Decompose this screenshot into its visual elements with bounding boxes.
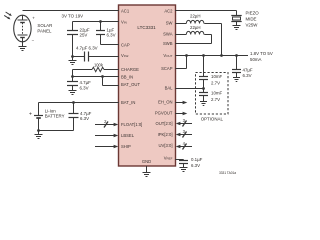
- node SCAP junction: [185, 54, 188, 57]
- svg-text:3331 TA01a: 3331 TA01a: [219, 171, 236, 175]
- svg-text:0.1µF: 0.1µF: [191, 157, 203, 162]
- svg-text:6.3V: 6.3V: [107, 33, 116, 38]
- svg-text:6.3V: 6.3V: [243, 73, 252, 78]
- svg-text:4.7µF 6.3V: 4.7µF 6.3V: [76, 45, 98, 50]
- sun arrow 1: [6, 12, 12, 16]
- ground C9: [180, 168, 188, 172]
- ground battery: [35, 131, 43, 139]
- svg-text:2.7V: 2.7V: [211, 97, 220, 102]
- wire AC2: [175, 11, 237, 16]
- wire battery negative: [39, 130, 74, 132]
- ground C4: [69, 91, 77, 95]
- wire IPK[2:0] input arrow: [176, 129, 192, 137]
- wire EH_ON output arrow: [175, 101, 187, 104]
- resistor R1 100k: [73, 67, 120, 71]
- node BAT_IN junction: [72, 101, 75, 104]
- IC U1 LTC3331: [119, 5, 176, 166]
- capacitor C6 47uF 6.3V: [232, 56, 241, 78]
- svg-text:PIEZO: PIEZO: [246, 11, 260, 16]
- label Li-Ion BATTERY: [45, 108, 65, 118]
- ground C6: [233, 78, 240, 82]
- svg-text:OUT[2:0]: OUT[2:0]: [156, 121, 173, 126]
- value 10mF 2.7V: [211, 90, 223, 102]
- wire CAP: [101, 44, 120, 46]
- svg-text:−: −: [32, 38, 35, 43]
- value 22uF 25V: [80, 27, 90, 37]
- svg-text:EH_ON: EH_ON: [158, 99, 172, 104]
- value 47uF 6.3V: [243, 68, 253, 79]
- svg-text:10mF: 10mF: [211, 90, 223, 95]
- ground solar: [19, 42, 27, 51]
- svg-text:+: +: [32, 15, 35, 20]
- wire SHIP input arrow: [95, 145, 118, 148]
- capacitor C5 4.7uF 6.3V: [69, 103, 79, 131]
- ground piezo: [233, 26, 241, 30]
- svg-text:SCAP: SCAP: [161, 66, 173, 71]
- node L1 junction: [220, 54, 223, 57]
- svg-text:3V TO 19V: 3V TO 19V: [62, 13, 84, 18]
- wire VOUT: [175, 55, 248, 57]
- node VIN2 ground junction: [71, 55, 74, 58]
- wire VIN: [73, 21, 120, 23]
- svg-text:CAP: CAP: [121, 42, 130, 47]
- wire BAT_OUT: [103, 77, 120, 86]
- node BB_IN junction: [71, 75, 74, 78]
- svg-text:IPK[2:0]: IPK[2:0]: [158, 132, 173, 137]
- wire VIN2: [73, 56, 85, 58]
- svg-text:VREF: VREF: [164, 155, 173, 160]
- svg-text:22µH: 22µH: [190, 25, 201, 30]
- svg-text:LTC3331: LTC3331: [137, 25, 156, 30]
- svg-text:100k: 100k: [94, 63, 104, 68]
- svg-text:VIN2: VIN2: [121, 53, 129, 58]
- ground VIN2: [69, 57, 77, 65]
- svg-text:1.8V TO 5V: 1.8V TO 5V: [250, 51, 273, 56]
- svg-text:PANEL: PANEL: [37, 28, 52, 33]
- svg-text:6.3V: 6.3V: [80, 116, 89, 121]
- svg-text:MIDE: MIDE: [246, 17, 257, 22]
- svg-text:22µF: 22µF: [80, 27, 90, 32]
- battery BT1 Li-Ion: [34, 103, 43, 131]
- svg-text:GND: GND: [142, 159, 151, 164]
- wire AC1: [23, 10, 120, 12]
- capacitor C8 10mF 2.7V: [199, 89, 208, 102]
- svg-text:AC1: AC1: [121, 9, 130, 14]
- wire SWB: [175, 43, 212, 45]
- capacitor C4 4.7uF 6.3V: [67, 82, 78, 91]
- capacitor C2 1uF 6.3V: [96, 22, 105, 45]
- svg-text:22µH: 22µH: [190, 13, 201, 18]
- ground supercap: [200, 102, 207, 106]
- wire VREF: [175, 159, 184, 161]
- inductor L2 22uH: [175, 31, 212, 43]
- label SOLAR PANEL: [37, 23, 52, 33]
- optional box: [196, 73, 229, 115]
- wire LBSEL input arrow: [95, 134, 118, 137]
- wire OUT[2:0] input arrow: [176, 118, 192, 126]
- wire FLOAT[1:0] input arrow: [95, 119, 118, 127]
- svg-text:+: +: [29, 112, 32, 118]
- node battery ground junction: [37, 129, 40, 132]
- svg-text:VOUT: VOUT: [163, 53, 172, 58]
- svg-text:6.3V: 6.3V: [191, 163, 200, 168]
- label PIEZO MIDE V25W: [246, 11, 260, 28]
- wire BB_IN: [73, 76, 120, 78]
- node C6 junction: [235, 54, 238, 57]
- svg-text:10mF: 10mF: [211, 74, 223, 79]
- svg-text:SW: SW: [166, 21, 173, 26]
- piezo X1 MIDE V25W: [231, 16, 241, 26]
- wire BAT_IN: [39, 102, 120, 104]
- svg-text:BB_IN: BB_IN: [121, 75, 133, 80]
- svg-text:BAL: BAL: [165, 85, 174, 90]
- value 1uF 6.3V: [107, 27, 116, 37]
- wire UV[3:0] input arrow: [176, 141, 192, 149]
- ground GND pin: [143, 166, 151, 177]
- svg-text:4.7µF: 4.7µF: [80, 111, 92, 116]
- solar panel PV1: [14, 15, 31, 42]
- svg-text:50mA: 50mA: [250, 57, 262, 62]
- wire BAL: [175, 88, 204, 90]
- svg-text:4.7µF: 4.7µF: [80, 80, 92, 85]
- value 0.1uF 6.3V: [191, 157, 203, 168]
- svg-text:PGVOUT: PGVOUT: [155, 110, 173, 115]
- capacitor C3 4.7uF 6.3V: [85, 52, 120, 62]
- value 4.7uF 6.3V: [80, 80, 92, 90]
- node BAT_OUT tie junction: [101, 75, 104, 78]
- svg-text:2.7V: 2.7V: [211, 80, 220, 85]
- node BAL junction: [202, 87, 205, 90]
- svg-text:V25W: V25W: [246, 23, 259, 28]
- wire PGVOUT output arrow: [175, 112, 187, 115]
- svg-text:AC2: AC2: [164, 9, 173, 14]
- value 10mF 2.7V: [211, 74, 223, 85]
- label 1.8V TO 5V 50mA: [250, 51, 273, 62]
- capacitor C7 10mF 2.7V: [199, 77, 208, 93]
- svg-text:SWA: SWA: [163, 32, 173, 37]
- wire supercap top: [203, 56, 205, 77]
- svg-text:SWB: SWB: [163, 41, 173, 46]
- svg-text:BAT_IN: BAT_IN: [121, 100, 135, 105]
- sun arrow 2: [4, 15, 10, 19]
- wire SCAP: [175, 56, 187, 69]
- svg-text:BAT_OUT: BAT_OUT: [121, 82, 140, 87]
- value 4.7uF 6.3V: [80, 111, 92, 121]
- inductor L1 22uH: [175, 20, 222, 55]
- svg-text:25V: 25V: [80, 33, 88, 38]
- svg-text:SHIP: SHIP: [121, 144, 131, 149]
- svg-text:UV[3:0]: UV[3:0]: [159, 143, 173, 148]
- svg-text:47µF: 47µF: [243, 68, 253, 73]
- svg-text:1µF: 1µF: [107, 27, 115, 32]
- node VIN junction: [99, 20, 102, 23]
- svg-text:CHARGE: CHARGE: [121, 67, 139, 72]
- capacitor C1 22uF 25V: [67, 22, 78, 57]
- capacitor C9 0.1uF 6.3V: [179, 160, 188, 168]
- wire CHARGE-BB_IN vertical: [72, 70, 74, 82]
- svg-text:BATTERY: BATTERY: [45, 114, 65, 119]
- svg-text:LBSEL: LBSEL: [121, 133, 135, 138]
- svg-text:VIN: VIN: [121, 20, 127, 25]
- svg-text:OPTIONAL: OPTIONAL: [201, 116, 224, 121]
- node supercap junction: [202, 54, 205, 57]
- svg-text:6.3V: 6.3V: [80, 85, 89, 90]
- svg-text:FLOAT[1:0]: FLOAT[1:0]: [121, 122, 142, 127]
